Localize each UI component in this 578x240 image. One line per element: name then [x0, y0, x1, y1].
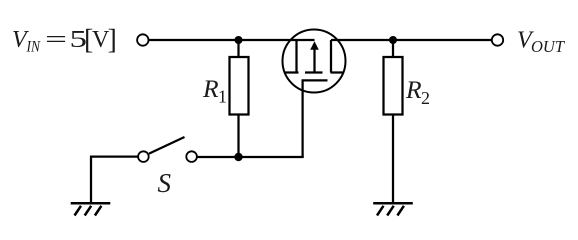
- node A (top of R1): [235, 36, 243, 44]
- mosfet Q1 source contact bar: [330, 40, 332, 73]
- svg-text:2: 2: [421, 88, 430, 108]
- wire R2 top lead: [392, 40, 394, 57]
- mosfet Q1 channel segment middle (bulk): [305, 71, 323, 73]
- wire switch to left corner: [90, 155, 138, 157]
- wire gate lead down: [301, 80, 303, 157]
- wire input to mosfet drain: [149, 39, 315, 41]
- mosfet Q1 bulk arrow stem: [313, 48, 315, 73]
- switch S right contact circle: [186, 151, 197, 162]
- svg-text:S: S: [158, 168, 172, 198]
- wire left vertical down to ground: [90, 156, 92, 204]
- switch S left contact circle: [138, 151, 149, 162]
- switch S lever: [149, 137, 185, 154]
- wire mosfet source to output: [331, 39, 492, 41]
- svg-text:]: ]: [108, 25, 117, 56]
- wire R2 bottom lead: [392, 115, 394, 204]
- resistor R2: [384, 57, 403, 115]
- mosfet Q1 drain contact bar: [295, 40, 297, 73]
- ground right: [373, 203, 413, 215]
- input terminal: [137, 34, 148, 45]
- svg-text:OUT: OUT: [531, 37, 566, 56]
- mosfet Q1 channel segment right: [331, 71, 344, 73]
- svg-text:R: R: [405, 75, 422, 104]
- mosfet Q1 body circle: [283, 30, 346, 93]
- wire R1 top lead: [237, 40, 239, 57]
- label R1: [202, 74, 227, 107]
- output terminal: [492, 34, 503, 45]
- mosfet Q1 bulk arrowhead: [310, 41, 319, 50]
- label VOUT: [517, 28, 566, 57]
- wire R1 bottom lead: [237, 115, 239, 158]
- node C (R1 bottom / gate): [234, 153, 242, 161]
- svg-text:R: R: [202, 74, 219, 103]
- label R2: [405, 75, 430, 108]
- mosfet Q1 gate bar: [302, 79, 328, 81]
- svg-text:IN: IN: [26, 39, 41, 56]
- resistor R1: [230, 57, 249, 115]
- node B (top of R2): [389, 36, 397, 44]
- svg-text:1: 1: [218, 87, 227, 107]
- mosfet Q1 channel segment left: [285, 71, 299, 73]
- ground left: [71, 203, 111, 215]
- wire bottom rail (gate node): [198, 156, 304, 158]
- label VIN = 5[V]: [12, 25, 117, 56]
- svg-text:=: =: [45, 27, 67, 53]
